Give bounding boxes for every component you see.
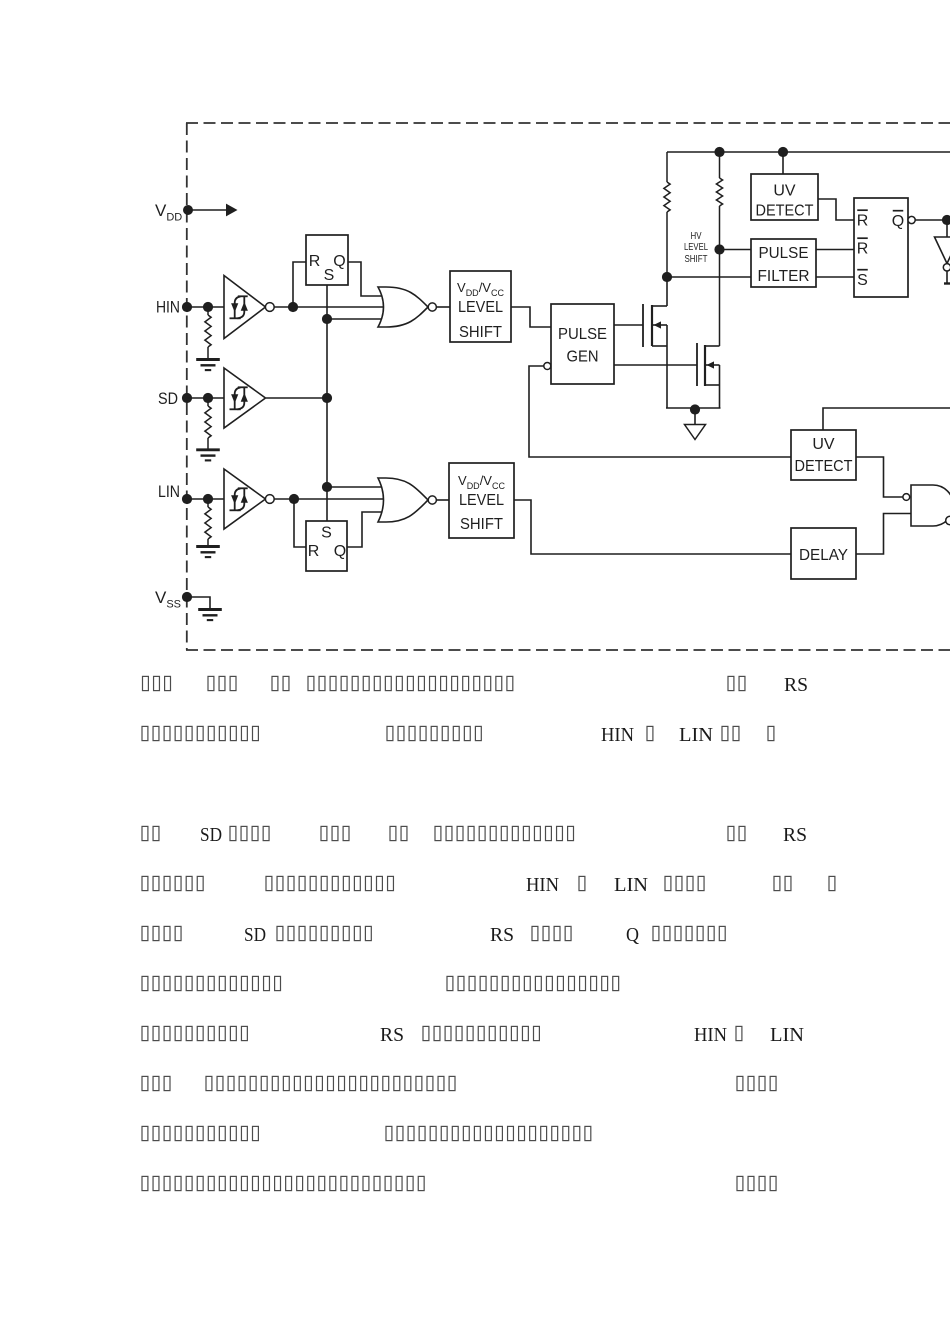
svg-text:R: R: [857, 213, 869, 230]
transistor M1 substrate arrow: [652, 324, 667, 326]
wire LATCH1 Q output to NOR1: [348, 262, 383, 296]
svg-text:SD: SD: [200, 824, 222, 846]
svg-text:R: R: [308, 543, 320, 560]
dashed IC boundary box: [186, 122, 950, 124]
node source-ground junction: [690, 404, 700, 414]
latch LATCH3 box: [306, 521, 347, 571]
wire LIN to buffer: [187, 498, 224, 500]
transistor M2 channel: [704, 345, 706, 386]
node SD junction: [322, 393, 332, 403]
pin VDD node dot: [183, 205, 193, 215]
wire PG output to M2 gate: [614, 364, 697, 366]
wire LATCH2 Q to driver: [915, 219, 947, 221]
node HIN pulldown junction: [203, 302, 213, 312]
transistor M1 gate bar: [642, 304, 644, 347]
node LIN-S junction: [322, 482, 332, 492]
svg-text:SHIFT: SHIFT: [685, 254, 708, 265]
transistor M2 drain stub: [705, 345, 720, 347]
svg-text:RS: RS: [783, 824, 807, 846]
wire HV node to pulse filter lower input: [667, 276, 751, 278]
ground SD pulldown: [196, 448, 220, 451]
pulse filter block PF: [751, 239, 816, 287]
NAND gate G3: [911, 485, 950, 526]
svg-text:R: R: [857, 241, 869, 258]
resistor HIN pulldown: [207, 311, 209, 315]
svg-text:RS: RS: [380, 1024, 404, 1046]
svg-text:S: S: [321, 525, 332, 542]
wire S junction to NOR1: [327, 318, 383, 320]
pin LIN node dot: [182, 494, 192, 504]
VDD arrow wire: [191, 209, 227, 211]
svg-text:Q: Q: [892, 213, 904, 230]
transistor M1 channel: [651, 305, 653, 346]
node S-NOR junction: [322, 314, 332, 324]
inverter bubble U2: [943, 264, 950, 271]
wire PF to latch S: [816, 276, 854, 278]
svg-text:Q: Q: [333, 253, 345, 270]
wire UVD1 to latch R input: [818, 199, 854, 220]
wire LATCH1 R input: [293, 262, 306, 303]
svg-text:LEVEL: LEVEL: [458, 299, 503, 316]
wire top VB rail: [667, 151, 950, 153]
wire LIN buffer output to NOR2: [274, 498, 383, 500]
wire down to driver: [946, 220, 948, 237]
svg-text:SHIFT: SHIFT: [460, 516, 503, 533]
wire to ground: [694, 410, 696, 425]
transistor M1 drain stub: [652, 305, 667, 307]
node UV detect tap: [778, 147, 788, 157]
schmitt buffer HIN U1: [224, 276, 266, 339]
svg-text:SHIFT: SHIFT: [459, 324, 502, 341]
pin HIN node dot: [182, 302, 192, 312]
svg-text:UV: UV: [812, 436, 835, 453]
svg-text:RS: RS: [490, 924, 514, 946]
wire LS2 output to delay: [514, 500, 791, 554]
node SD pulldown junction: [203, 393, 213, 403]
wire M2 source down: [719, 365, 721, 408]
pulse generator block PG: [551, 304, 614, 384]
delay block DLY: [791, 528, 856, 579]
level shift block LS1: [450, 271, 511, 342]
svg-text:HIN: HIN: [156, 299, 180, 317]
wire HIN buffer output to NOR gate: [274, 306, 383, 308]
svg-text:HIN: HIN: [526, 874, 559, 896]
svg-text:RS: RS: [784, 674, 808, 696]
svg-text:Q: Q: [626, 924, 639, 946]
latch LATCH2 box: [854, 198, 908, 297]
wire M1 drain up: [666, 277, 668, 306]
wire LATCH3 Q output to NOR2: [347, 512, 383, 547]
svg-text:PULSE: PULSE: [759, 245, 809, 262]
wire G2 to level shift 2: [436, 499, 449, 501]
wire LIN-S junction to NOR2: [327, 486, 383, 488]
NOR gate G1: [378, 287, 428, 327]
svg-text:SD: SD: [244, 924, 266, 946]
NOR gate G2: [378, 478, 428, 522]
node LIN pulldown junction: [203, 494, 213, 504]
transistor M2 source stub: [705, 384, 720, 386]
inverter bubble G1 output: [428, 303, 436, 311]
wire rail to UV detect: [782, 152, 784, 174]
wire LS1 to pulse gen: [511, 307, 551, 327]
inverter bubble NAND upper input: [903, 494, 910, 501]
svg-text:HIN: HIN: [694, 1024, 727, 1046]
inverter bubble G3 output: [946, 516, 950, 525]
UV detect block UVD1: [751, 174, 818, 220]
svg-text:DETECT: DETECT: [756, 203, 814, 220]
pin VSS node dot: [182, 592, 192, 602]
inverter bubble G2 output: [428, 496, 436, 504]
schmitt buffer LIN U4: [224, 469, 266, 529]
svg-text:DETECT: DETECT: [795, 458, 853, 475]
svg-text:LEVEL: LEVEL: [459, 492, 504, 509]
wire to pulse filter upper input: [720, 249, 752, 251]
wire source rail: [666, 407, 721, 409]
resistor SD pulldown: [207, 402, 209, 406]
schmitt buffer SD U3: [224, 368, 266, 428]
ground LIN pulldown: [196, 545, 220, 548]
svg-text:SD: SD: [158, 390, 178, 408]
wire UVD2 top to output rail: [823, 408, 950, 430]
inverter bubble LIN buffer: [265, 495, 274, 504]
inverter bubble PG lower input: [544, 363, 551, 370]
pin SD node dot: [182, 393, 192, 403]
wire LATCH3 R input: [294, 499, 306, 547]
ground VSS: [198, 608, 222, 611]
wire M1 source down: [666, 325, 668, 408]
level shift block LS2: [449, 463, 514, 538]
wire LATCH1 S vertical net: [326, 285, 328, 521]
UV detect block UVD2: [791, 430, 856, 480]
wire UVD2 output to NAND: [856, 457, 903, 497]
wire HIN to buffer: [187, 306, 224, 308]
node Q driver junction: [942, 215, 950, 225]
output driver inverter U2: [935, 237, 950, 264]
svg-text:PULSE: PULSE: [558, 326, 607, 343]
node HIN-R junction: [288, 302, 298, 312]
node LIN-R junction: [289, 494, 299, 504]
transistor M2 gate bar: [696, 343, 698, 386]
wire PG output to M1 gate: [614, 324, 643, 326]
svg-text:DELAY: DELAY: [799, 547, 848, 564]
svg-text:FILTER: FILTER: [758, 268, 810, 285]
svg-text:VDD: VDD: [155, 201, 182, 224]
svg-text:HV: HV: [691, 231, 702, 242]
resistor R1 high side: [666, 152, 668, 182]
transistor M2 substrate arrow: [705, 364, 720, 366]
node R1-M1 drain junction: [662, 272, 672, 282]
svg-text:LEVEL: LEVEL: [684, 242, 708, 253]
transistor M1 source stub: [652, 345, 667, 347]
resistor R2 high side: [719, 152, 721, 178]
wire SD buffer output: [266, 397, 327, 399]
svg-text:UV: UV: [773, 183, 796, 200]
svg-text:LIN: LIN: [679, 724, 713, 746]
inverter bubble LATCH2 output: [908, 216, 915, 223]
latch LATCH1 box: [306, 235, 348, 285]
svg-text:HIN: HIN: [601, 724, 634, 746]
svg-text:LIN: LIN: [614, 874, 648, 896]
wire PG bubble to UV detect low net: [529, 366, 791, 457]
wire U2 to output stage: [946, 271, 948, 284]
svg-text:LIN: LIN: [158, 483, 180, 501]
svg-text:S: S: [857, 272, 868, 289]
VDD arrowhead: [226, 204, 238, 217]
inverter bubble HIN buffer: [265, 303, 274, 312]
node VB rail junction 1: [714, 147, 724, 157]
wire G1 to level shift 1: [436, 306, 450, 308]
svg-text:GEN: GEN: [567, 349, 599, 366]
ground HIN pulldown: [196, 358, 220, 361]
node R2-pulse filter junction: [714, 244, 724, 254]
wire DLY output to NAND: [856, 514, 911, 555]
wire SD to buffer: [187, 397, 224, 399]
wire VSS to ground: [187, 597, 210, 609]
svg-text:Q: Q: [334, 543, 346, 560]
svg-text:R: R: [309, 253, 321, 270]
svg-text:VSS: VSS: [155, 588, 181, 611]
wire PF to latch R2: [816, 249, 854, 251]
resistor LIN pulldown: [207, 503, 209, 507]
svg-text:LIN: LIN: [770, 1024, 804, 1046]
ground arrow symbol: [685, 425, 706, 440]
